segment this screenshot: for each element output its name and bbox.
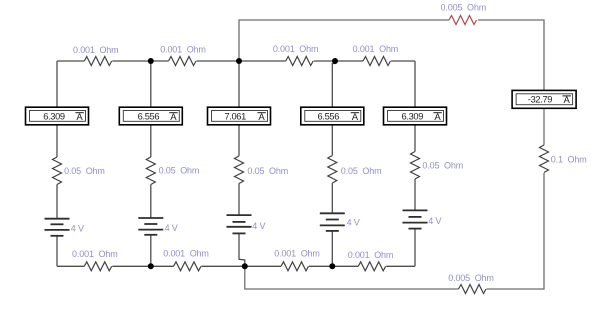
svg-text:0.001 Ohm: 0.001 Ohm bbox=[160, 44, 206, 54]
resistor R2 0.001 Ohm (top bus 2) bbox=[169, 57, 197, 66]
wire right column (meter M6 to R17) bbox=[543, 108, 545, 145]
svg-text:4 V: 4 V bbox=[71, 224, 84, 234]
ammeter M4 6.556 A (branch 4) bbox=[301, 107, 364, 125]
node G junction dot (bottom bus / branch 4) bbox=[329, 263, 335, 269]
resistor R16 0.005 Ohm (bottom) bbox=[459, 285, 487, 294]
wire branch 3 lower jog to bottom bus node bbox=[239, 233, 245, 266]
svg-text:-32.79: -32.79 bbox=[528, 95, 552, 105]
wire branch 3 vertical bbox=[238, 61, 240, 215]
resistor R11 0.05 Ohm (branch 5) bbox=[411, 152, 420, 180]
svg-text:A: A bbox=[76, 112, 83, 123]
wire branch 5 vertical bbox=[414, 61, 416, 266]
resistor R17 0.1 Ohm (right column) bbox=[540, 145, 549, 173]
resistor R12 0.001 Ohm (bottom bus 1) bbox=[84, 262, 112, 271]
ammeter M6 -32.79 A (right column) bbox=[512, 90, 576, 108]
svg-text:0.005 Ohm: 0.005 Ohm bbox=[448, 273, 494, 283]
svg-text:6.556: 6.556 bbox=[138, 111, 160, 121]
svg-text:6.556: 6.556 bbox=[318, 111, 340, 121]
svg-text:0.001 Ohm: 0.001 Ohm bbox=[274, 249, 320, 259]
svg-text:7.061: 7.061 bbox=[224, 111, 246, 121]
resistor R9 0.05 Ohm (branch 3) bbox=[235, 156, 244, 184]
resistor R15 0.001 Ohm (bottom bus 4) bbox=[358, 262, 386, 271]
svg-text:A: A bbox=[258, 112, 265, 123]
ammeter M5 6.309 A (branch 5) bbox=[384, 107, 447, 125]
svg-text:0.001 Ohm: 0.001 Ohm bbox=[72, 249, 118, 259]
ammeter M2 6.556 A (branch 2) bbox=[119, 107, 182, 125]
node D junction dot (top bus / branch 4) bbox=[332, 58, 338, 64]
battery V1 4 V bbox=[45, 219, 70, 236]
svg-text:A: A bbox=[170, 112, 177, 123]
wire branch 2 vertical bbox=[150, 61, 152, 266]
resistor R10 0.05 Ohm (branch 4) bbox=[328, 156, 337, 184]
battery V2 4 V bbox=[138, 218, 163, 235]
node B junction dot (top bus / branch 2) bbox=[148, 58, 154, 64]
wire top bus segments bbox=[57, 60, 415, 62]
battery V4 4 V bbox=[320, 213, 345, 231]
resistor R6 0.005 Ohm (top, highlighted red) bbox=[449, 16, 477, 25]
svg-text:0.001 Ohm: 0.001 Ohm bbox=[73, 45, 119, 55]
battery V3 4 V bbox=[227, 215, 252, 233]
svg-text:0.05 Ohm: 0.05 Ohm bbox=[422, 160, 463, 170]
battery V5 4 V bbox=[403, 210, 428, 228]
resistor R4 0.001 Ohm (top bus 4) bbox=[363, 57, 391, 66]
resistor R3 0.001 Ohm (top bus 3) bbox=[286, 57, 314, 66]
svg-text:4 V: 4 V bbox=[165, 223, 178, 233]
svg-text:0.05 Ohm: 0.05 Ohm bbox=[159, 165, 200, 175]
svg-text:4 V: 4 V bbox=[252, 221, 265, 231]
svg-text:A: A bbox=[564, 95, 571, 106]
svg-text:0.001 Ohm: 0.001 Ohm bbox=[353, 44, 399, 54]
wire top loop (node C up and across to R6, then down to meter M6) bbox=[239, 20, 544, 90]
wire bottom bus segments bbox=[57, 265, 415, 267]
node E junction dot (bottom bus / branch 2) bbox=[148, 263, 154, 269]
resistor R7 0.05 Ohm (branch 1) bbox=[53, 157, 62, 185]
wire branch 4 vertical with top jog from node D bbox=[332, 61, 335, 266]
svg-text:4 V: 4 V bbox=[428, 216, 441, 226]
svg-text:0.001 Ohm: 0.001 Ohm bbox=[348, 250, 394, 260]
svg-text:6.309: 6.309 bbox=[402, 111, 424, 121]
resistor R1 0.001 Ohm (top bus 1) bbox=[84, 57, 112, 66]
svg-text:A: A bbox=[434, 112, 441, 123]
resistor R8 0.05 Ohm (branch 2) bbox=[146, 157, 155, 185]
wire branch 1 vertical bbox=[56, 61, 58, 266]
svg-text:0.001 Ohm: 0.001 Ohm bbox=[163, 249, 209, 259]
svg-text:0.05 Ohm: 0.05 Ohm bbox=[247, 166, 288, 176]
svg-text:0.05 Ohm: 0.05 Ohm bbox=[64, 166, 105, 176]
ammeter M3 7.061 A (branch 3) bbox=[208, 107, 271, 125]
node F junction dot (bottom bus / branch 3 / return loop) bbox=[242, 263, 248, 269]
node C junction dot (top bus / branch 3 / top loop) bbox=[236, 58, 242, 64]
svg-text:0.001 Ohm: 0.001 Ohm bbox=[273, 44, 319, 54]
svg-text:4 V: 4 V bbox=[347, 218, 360, 228]
svg-text:0.1 Ohm: 0.1 Ohm bbox=[551, 155, 587, 165]
svg-text:6.309: 6.309 bbox=[43, 111, 65, 121]
svg-text:0.05 Ohm: 0.05 Ohm bbox=[341, 166, 382, 176]
svg-text:A: A bbox=[352, 112, 359, 123]
resistor R14 0.001 Ohm (bottom bus 3) bbox=[281, 262, 309, 271]
resistor R13 0.001 Ohm (bottom bus 2) bbox=[174, 262, 202, 271]
ammeter M1 6.309 A (branch 1) bbox=[26, 107, 89, 125]
wire bottom return loop (node F down, right to R16, to right column) bbox=[245, 173, 544, 289]
svg-text:0.005 Ohm: 0.005 Ohm bbox=[441, 3, 487, 13]
